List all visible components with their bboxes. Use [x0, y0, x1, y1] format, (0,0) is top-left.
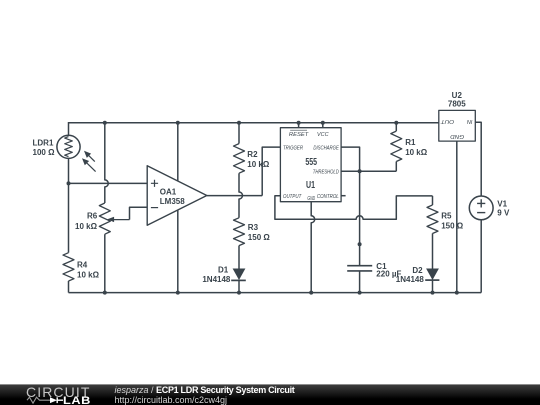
junction dot bottom rail D1 [237, 291, 241, 295]
label R6 name and value [75, 211, 98, 231]
junction dot discharge branch [358, 242, 362, 246]
label C1 name and value [376, 262, 401, 278]
svg-text:U1: U1 [306, 180, 315, 191]
junction dot top rail RESET [297, 121, 301, 125]
wire C1 bottom to bottom rail [359, 271, 361, 293]
wire V1 bottom to bottom rail [480, 220, 482, 293]
potentiometer R6 [99, 203, 129, 234]
wire R6 bottom to bottom rail [104, 234, 106, 292]
svg-text:OUT: OUT [440, 118, 454, 124]
label R1 name and value [405, 138, 428, 157]
junction dot top rail R2 [237, 121, 241, 125]
junction dot bottom rail D2 [431, 291, 435, 295]
label LDR1 name and value [33, 139, 56, 157]
junction dot bottom rail U2 GND [455, 291, 459, 295]
wire left rail LDR1 to node A [68, 158, 70, 184]
diode D2 [425, 269, 439, 281]
svg-text:R2: R2 [247, 150, 258, 159]
label U2 name and value [448, 91, 466, 109]
wire vertical branch x=105 with hop over input wire [105, 122, 109, 203]
junction dot top rail x=178 [176, 121, 180, 125]
label R5 name and value [441, 212, 464, 231]
wire R2 to R3 with hop over op-amp output [239, 173, 243, 218]
svg-text:D2: D2 [412, 266, 423, 275]
svg-text:D1: D1 [218, 265, 229, 274]
svg-text:555: 555 [305, 157, 317, 168]
wire left rail node A to R4 [68, 183, 70, 252]
svg-text:LDR1: LDR1 [33, 139, 54, 148]
svg-text:150 Ω: 150 Ω [441, 221, 464, 230]
svg-text:GND: GND [450, 133, 464, 139]
CircuitLab logo word LAB [63, 395, 91, 405]
svg-text:7805: 7805 [448, 100, 466, 109]
svg-text:TRIGGER: TRIGGER [283, 145, 304, 151]
svg-text:THRESHOLD: THRESHOLD [313, 170, 339, 176]
footer bar [0, 384, 540, 405]
svg-text:150 Ω: 150 Ω [248, 233, 271, 242]
junction dot top rail x=105 [103, 121, 107, 125]
svg-text:10 kΩ: 10 kΩ [75, 222, 98, 231]
svg-text:9 V: 9 V [497, 209, 510, 218]
wire vertical branch x=178 behind op-amp [177, 122, 179, 292]
wire op-amp non-inverting input from node A [69, 182, 147, 184]
svg-text:CONTROL: CONTROL [317, 194, 339, 200]
svg-text:OA1: OA1 [160, 187, 177, 196]
resistor R2 [234, 144, 245, 174]
wire 555 CONTROL stub [341, 195, 346, 197]
svg-text:IN: IN [466, 118, 472, 124]
svg-text:R5: R5 [441, 212, 452, 221]
svg-text:1N4148: 1N4148 [396, 275, 425, 284]
svg-text:V1: V1 [497, 200, 507, 209]
capacitor C1 [347, 266, 372, 271]
label V1 name and value [497, 200, 510, 218]
junction dot bottom rail x=178 [176, 291, 180, 295]
wire D1 to bottom rail [238, 281, 240, 293]
svg-text:100 Ω: 100 Ω [33, 148, 56, 157]
junction dot top rail VCC [321, 121, 325, 125]
junction dot bottom rail x=105 [103, 291, 107, 295]
op-amp OA1 [147, 166, 207, 226]
junction dot node A on left rail [67, 181, 71, 185]
IC U2 7805 regulator [439, 110, 476, 141]
svg-text:GND: GND [307, 196, 315, 202]
svg-text:RESET: RESET [289, 132, 309, 138]
svg-text:R4: R4 [77, 260, 88, 269]
footer url line [115, 395, 228, 405]
resistor R3 [234, 218, 245, 246]
svg-text:VCC: VCC [317, 132, 329, 138]
svg-text:DISCHARGE: DISCHARGE [313, 145, 338, 151]
CircuitLab logo resistor-diode glyph [26, 394, 66, 405]
svg-text:10 kΩ: 10 kΩ [247, 160, 270, 169]
wire R3 to D1 [238, 246, 240, 269]
resistor R1 [391, 131, 402, 161]
svg-text:1N4148: 1N4148 [202, 275, 231, 284]
svg-text:LM358: LM358 [160, 197, 185, 206]
wire op-amp output up to 555 TRIGGER [262, 147, 280, 196]
wire R2 top to top rail [238, 122, 240, 143]
svg-text:OUTPUT: OUTPUT [283, 194, 302, 200]
label D1 name and value [202, 265, 231, 284]
label OA1 name and value [160, 187, 185, 206]
wire U2 GND to bottom rail [456, 141, 458, 293]
wire D2 to bottom rail [432, 281, 434, 293]
wire R5 to D2 [432, 233, 434, 268]
junction dot top rail R1 [394, 121, 398, 125]
wire R6 wiper to op-amp inverting input [130, 207, 147, 219]
photoresistor LDR1 [57, 135, 96, 171]
wire left rail above LDR1 [68, 122, 70, 136]
resistor R5 [427, 205, 438, 233]
CircuitLab logo word CIRCUIT [26, 384, 90, 400]
diode D1 [231, 269, 246, 281]
resistor R4 [63, 253, 74, 281]
wire 555 RESET stub to top rail [298, 122, 300, 127]
label R2 name and value [247, 150, 270, 169]
wire left rail R4 to bottom rail [68, 281, 70, 293]
footer title line [115, 385, 295, 395]
wire op-amp output [207, 195, 262, 197]
wire R1 top to top rail [395, 122, 397, 131]
wire 555 VCC stub to top rail [322, 122, 324, 127]
wire 555 GND to bottom rail with hop over output run [311, 202, 315, 293]
voltage source V1 [469, 196, 493, 220]
wire 555 DISCHARGE to C1 top [341, 147, 360, 266]
wire 555 THRESHOLD to R1 bottom [341, 170, 396, 172]
wire R5 top stub [432, 196, 434, 205]
junction dot bottom rail 555 GND [309, 291, 313, 295]
label D2 name and value [396, 266, 425, 284]
label R4 name and value [77, 260, 100, 279]
wire 555 OUTPUT run to R5 with hop over C1 branch [275, 196, 433, 220]
junction dot bottom rail C1 [358, 291, 362, 295]
svg-text:R3: R3 [248, 223, 259, 232]
IC U1 555 timer [280, 128, 341, 203]
label R3 name and value [248, 223, 271, 242]
wire R1 bottom [395, 162, 397, 172]
wire U2 IN to V1 top [475, 122, 481, 196]
svg-text:R1: R1 [405, 138, 416, 147]
wire top rail [69, 122, 439, 124]
wire bottom rail (ground net) [69, 292, 482, 294]
svg-text:10 kΩ: 10 kΩ [77, 270, 100, 279]
svg-text:R6: R6 [87, 211, 98, 220]
svg-text:10 kΩ: 10 kΩ [405, 148, 428, 157]
junction dot threshold-discharge [358, 169, 362, 173]
